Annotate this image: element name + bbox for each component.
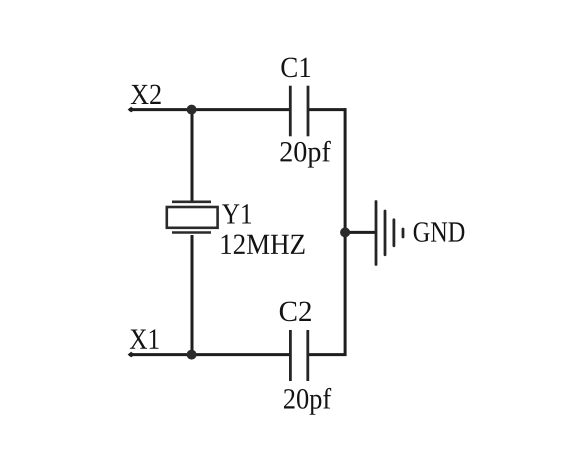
label C1 bbox=[281, 58, 310, 78]
wire top-left segment (X2 to C1) bbox=[129, 108, 290, 111]
label X2 bbox=[131, 85, 161, 104]
capacitor C1 bbox=[290, 86, 308, 137]
wire bottom-right segment (C2 to corner) bbox=[309, 353, 347, 356]
node junction GND bbox=[340, 227, 350, 237]
node junction X2 bbox=[187, 105, 197, 115]
wire left vertical lower (Y1 to X1 node) bbox=[191, 235, 194, 355]
wire pin tip X1 bbox=[128, 352, 135, 358]
wire pin tip X2 bbox=[128, 107, 135, 113]
wire left vertical upper (X2 node to Y1) bbox=[191, 110, 194, 201]
wire bottom-left segment (X1 to C2) bbox=[129, 353, 290, 356]
ground symbol bbox=[376, 202, 403, 265]
label C2 bbox=[280, 302, 311, 322]
crystal Y1 bbox=[167, 202, 218, 233]
label X1 bbox=[130, 329, 159, 348]
value 20pf (C2) bbox=[284, 388, 331, 415]
label Y1 bbox=[222, 204, 251, 223]
value 20pf (C1) bbox=[280, 141, 330, 168]
wire GND stub bbox=[345, 231, 375, 234]
label GND bbox=[414, 222, 465, 242]
node junction X1 bbox=[187, 350, 197, 360]
value 12MHZ bbox=[222, 234, 305, 253]
wire top-right segment (C1 to corner) bbox=[309, 108, 347, 111]
wire right vertical bbox=[344, 108, 347, 356]
capacitor C2 bbox=[290, 330, 307, 381]
